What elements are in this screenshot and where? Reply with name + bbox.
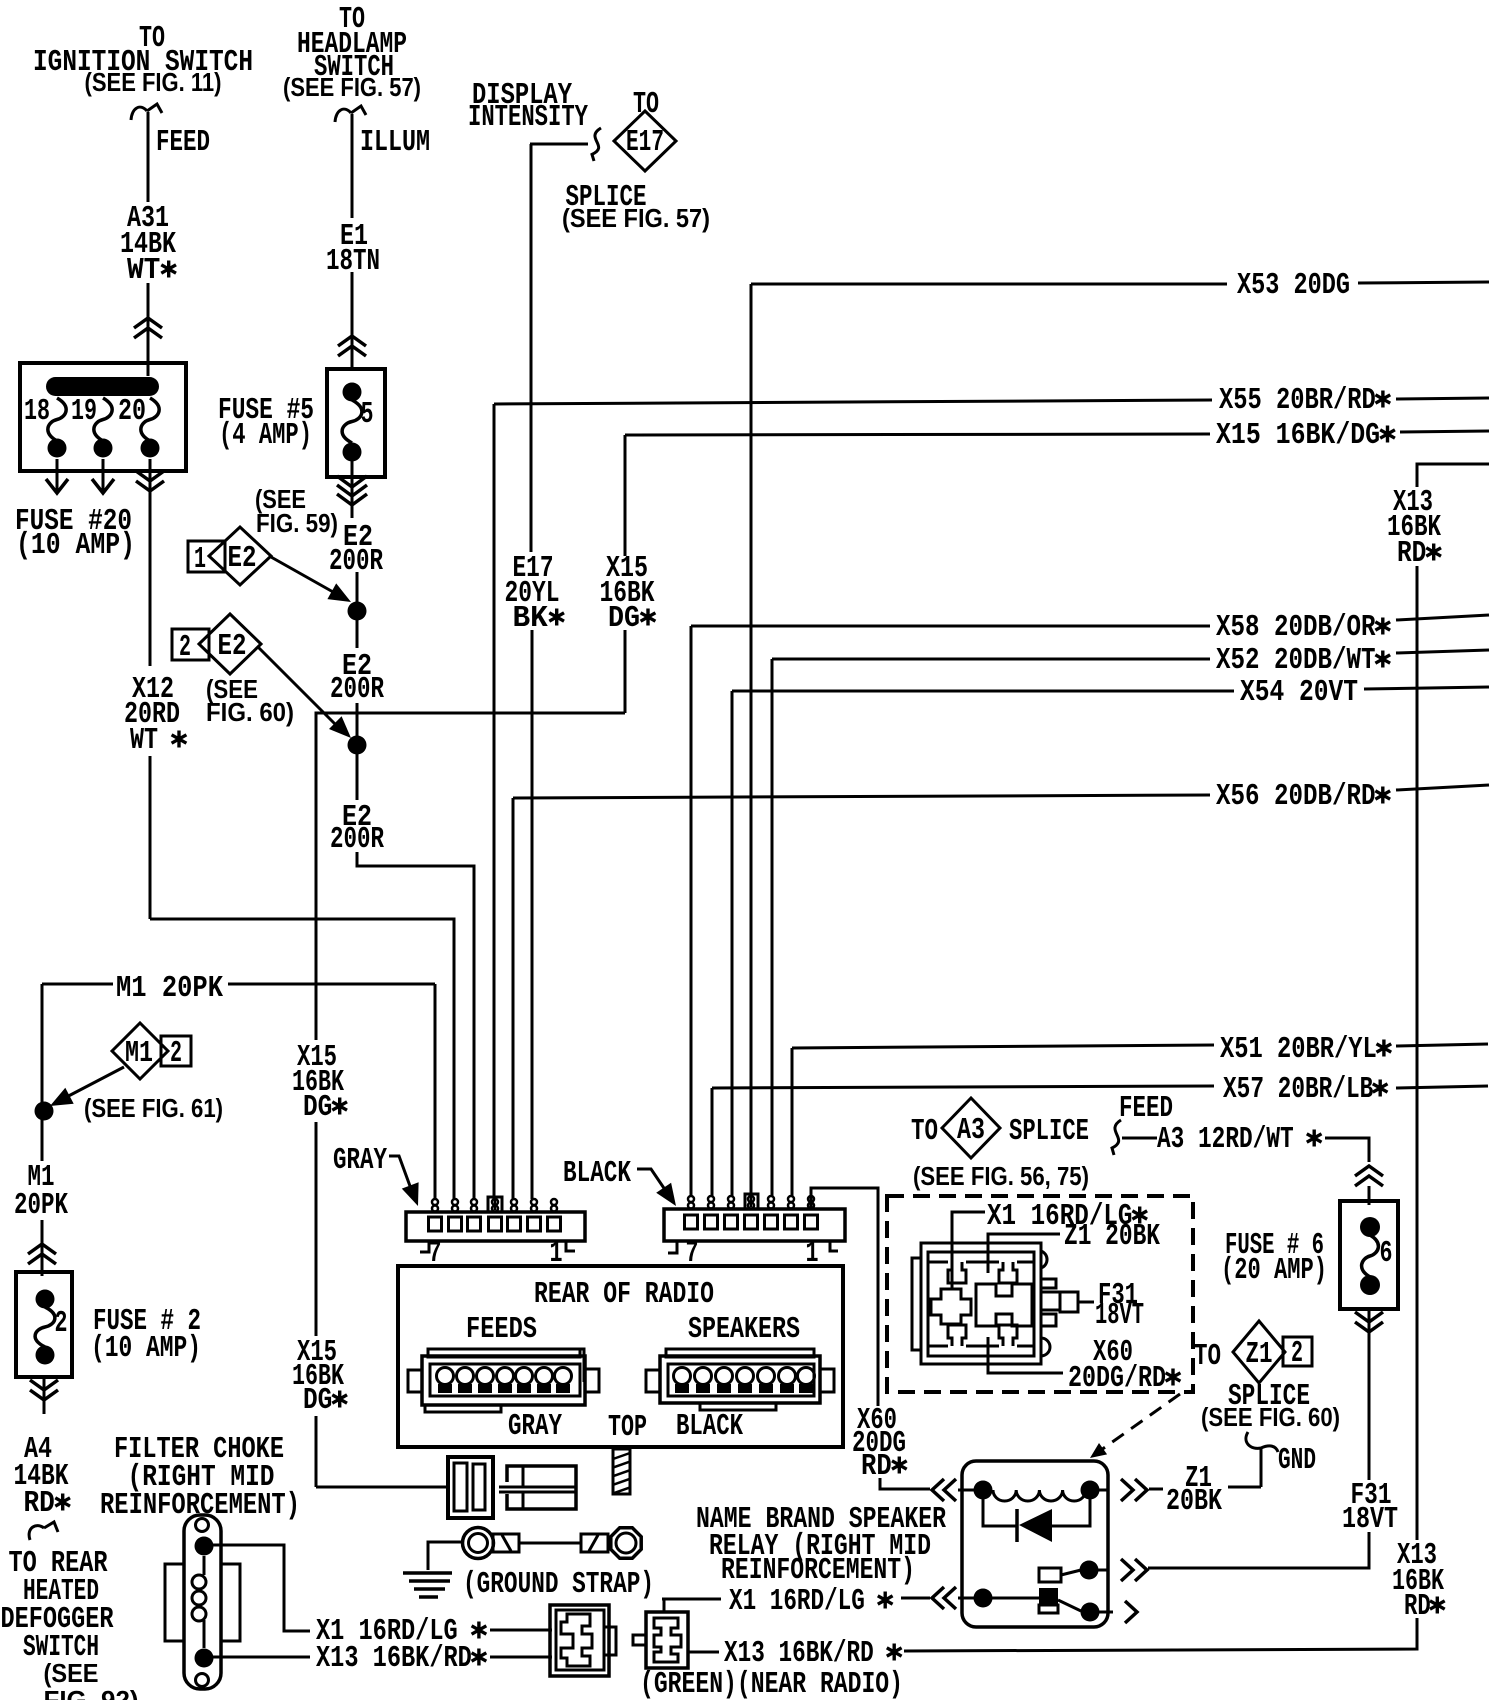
junction dot M1 [35,1102,54,1121]
wire X12 vertical [149,459,152,666]
svg-text:X53 20DG: X53 20DG [1237,269,1350,303]
svg-text:REINFORCEMENT): REINFORCEMENT) [721,1554,915,1588]
fuse 20 element [141,398,159,441]
svg-text:(GREEN)(NEAR RADIO): (GREEN)(NEAR RADIO) [640,1668,903,1700]
wire black pin1 to X60 [811,1188,878,1406]
off-page connector to headlamp switch [335,106,366,122]
splice diamond M1 [112,1023,168,1079]
svg-text:2: 2 [55,1307,68,1341]
splice diamond Z1 [1233,1321,1285,1383]
svg-text:X1 16RD/LG: X1 16RD/LG [729,1585,892,1619]
wire X1 from choke [213,1545,310,1631]
wire F31 vertical [1368,1344,1371,1480]
wire relay lower out [1098,1611,1113,1614]
svg-text:20PK: 20PK [14,1189,69,1223]
wire X12 to gray pin 6 [150,919,454,1199]
inline connector chevron X13 out [1125,1601,1137,1623]
svg-text:X57 20BR/LB: X57 20BR/LB [1223,1073,1387,1107]
wire X1 right label [662,1598,721,1601]
svg-text:20DG/RD: 20DG/RD [1068,1362,1180,1396]
svg-text:200R: 200R [330,673,385,707]
inline connector chevrons M1 [28,1244,56,1264]
svg-text:SPEAKERS: SPEAKERS [688,1313,800,1347]
svg-text:A3 12RD/WT: A3 12RD/WT [1157,1123,1321,1157]
wire E17 vertical [530,144,533,552]
svg-text:19: 19 [71,395,97,429]
svg-text:2: 2 [179,631,191,665]
wire X54 20VT [732,690,1234,693]
svg-text:ILLUM: ILLUM [360,126,430,160]
svg-text:6: 6 [1380,1237,1393,1271]
svg-text:(SEE FIG. 11): (SEE FIG. 11) [85,67,222,97]
inline connector chevrons A31 [134,318,162,338]
inline connector chevrons F31 [1355,1312,1383,1332]
off-page connector to defogger [29,1522,58,1540]
svg-text:GRAY: GRAY [333,1144,388,1178]
inline connector chevrons F31 out [1121,1559,1147,1581]
fuse 2 element [35,1307,55,1347]
svg-text:Z1: Z1 [1246,1338,1273,1372]
svg-text:BLACK: BLACK [676,1410,744,1444]
splice feed squiggle E17 [592,128,601,161]
inline connector chevrons Z1 out [1121,1479,1147,1501]
svg-text:REAR OF RADIO: REAR OF RADIO [534,1278,714,1312]
svg-text:SPLICE: SPLICE [1009,1115,1089,1149]
svg-text:INTENSITY: INTENSITY [468,101,589,135]
wire X58 20DB/OR* [691,625,1210,628]
wire X15 16BK/DG* [625,434,1210,435]
wire E17 horizontal [530,143,588,146]
fuse 20 terminal [141,439,160,458]
wire E2 to gray pin 5 [357,852,474,1199]
svg-text:(20 AMP): (20 AMP) [1221,1254,1327,1288]
splice ref box M1-2 [161,1036,191,1066]
connector GREEN near radio [646,1612,688,1668]
splice ref box 2 [172,629,209,660]
fuse 2 box [16,1272,72,1377]
wire Z1 from relay [1149,1488,1163,1491]
wire X57 20BR/LB* [712,1086,1214,1088]
svg-text:20BK: 20BK [1166,1485,1223,1519]
inline connector chevrons X1 relay [932,1587,956,1609]
relay armature contact [1039,1588,1058,1605]
wire E2 segment 2 [356,703,359,800]
leader F31 [1078,1301,1094,1304]
inline connector chevrons A3 fuse6 [1355,1166,1383,1186]
wire A31 feed vertical [147,112,150,202]
inline connector chevrons E2 [337,476,367,505]
wire F31 to relay [1148,1532,1369,1568]
splice ref box Z1-2 [1283,1337,1312,1366]
svg-text:X58 20DB/OR: X58 20DB/OR [1216,611,1390,645]
leader Z1 20BK [988,1234,1060,1273]
junction dot E2-1 [348,602,367,621]
filter choke component [184,1515,221,1689]
fuse 6 top terminal [1360,1217,1380,1237]
fuse 5 element [342,400,362,443]
wire X51 20BR/YL* [792,1045,1214,1048]
svg-text:E17: E17 [626,126,664,160]
wire X13 from choke [213,1656,310,1659]
dashed arrow to relay [1094,1394,1180,1455]
svg-text:(SEE FIG. 60): (SEE FIG. 60) [1201,1402,1340,1432]
svg-text:18VT: 18VT [1095,1299,1144,1333]
relay coil terminal left [974,1481,993,1500]
fuse 18 element [48,398,66,441]
wire GND to Z1 label [1260,1448,1263,1487]
fuse 5 bottom terminal [343,443,362,462]
svg-text:(SEE: (SEE [44,1658,99,1688]
svg-text:5: 5 [361,398,374,432]
svg-text:X52 20DB/WT: X52 20DB/WT [1216,644,1390,678]
connector GRAY body [406,1212,585,1241]
fuse 19 output arrow [102,459,105,492]
splice ref box 1 [188,541,225,572]
connector SPEAKERS drawing [660,1356,820,1403]
fuse 6 box [1340,1201,1398,1309]
inline connector chevrons X12 [136,471,164,491]
svg-text:X13 16BK/RD: X13 16BK/RD [724,1637,901,1671]
wire M1 vertical [41,984,44,1161]
wire E2 segment 1 [356,572,359,648]
svg-text:X51 20BR/YL: X51 20BR/YL [1220,1033,1391,1067]
svg-text:X15 16BK/DG: X15 16BK/DG [1216,419,1395,453]
wire X60 into relay [880,1478,930,1489]
svg-text:(4 AMP): (4 AMP) [219,419,312,453]
svg-text:(SEE FIG. 61): (SEE FIG. 61) [84,1093,223,1123]
dashed box relay connector [887,1196,1193,1392]
svg-text:18TN: 18TN [326,245,380,279]
wire M1 horizontal [42,983,113,986]
svg-text:X13 16BK/RD: X13 16BK/RD [316,1642,486,1676]
fuse 6 bottom terminal [1360,1275,1380,1295]
relay armature terminal [1081,1603,1100,1622]
splice diamond E2-2 [199,614,261,674]
arrow from E2-2 to junction [258,647,342,731]
relay box [962,1461,1108,1627]
svg-text:X54 20VT: X54 20VT [1240,676,1358,710]
fuse 5 top terminal [343,383,362,402]
svg-text:(10 AMP): (10 AMP) [91,1332,201,1366]
relay NO terminal [1080,1561,1099,1580]
svg-text:E2: E2 [228,542,257,576]
svg-text:X55 20BR/RD: X55 20BR/RD [1219,384,1390,418]
ground strap rings [463,1528,494,1559]
svg-text:TOP: TOP [608,1411,647,1445]
svg-text:FEED: FEED [1119,1092,1173,1126]
svg-text:2: 2 [170,1037,182,1071]
splice diamond E17 [614,111,676,171]
relay coil terminal right [1081,1481,1100,1500]
svg-text:GND: GND [1278,1444,1316,1478]
svg-text:M1 20PK: M1 20PK [116,972,224,1006]
fuse block box [20,363,186,471]
svg-text:1: 1 [194,543,206,577]
svg-text:2: 2 [1291,1337,1303,1371]
wire A4 below fuse 2 [43,1377,46,1414]
svg-text:FIG. 92): FIG. 92) [44,1685,139,1700]
wire X13 into connector [490,1656,552,1659]
off-page connector to ignition switch [131,104,162,120]
wire E1 vertical [351,114,354,218]
wire X56 20DB/RD* [513,795,1210,798]
wire E2 below fuse 5 [351,461,354,518]
svg-text:(GROUND STRAP): (GROUND STRAP) [463,1568,654,1602]
fuse 2 bottom terminal [36,1346,55,1365]
svg-text:(SEE FIG. 57): (SEE FIG. 57) [283,72,421,102]
fuse block bus bar [46,377,159,396]
wire X13 16BK RD* right [1417,464,1489,487]
splice diamond E2-1 [209,527,271,585]
leader X1 16RD/LG [952,1212,985,1290]
off-page connector GND [1246,1432,1278,1452]
svg-text:Z1 20BK: Z1 20BK [1064,1220,1161,1254]
ground lead [428,1542,462,1570]
relay coil wire [958,1489,983,1492]
wire X55 20BR/RD* [494,400,1212,404]
wire X13 right label [689,1651,719,1654]
svg-text:GRAY: GRAY [508,1410,563,1444]
ground symbol [403,1571,452,1575]
svg-text:X56 20DB/RD: X56 20DB/RD [1216,780,1390,814]
svg-text:(SEE FIG. 56, 75): (SEE FIG. 56, 75) [913,1161,1089,1191]
mounting stud [613,1449,630,1494]
fuse 19 terminal [94,439,113,458]
svg-text:18: 18 [24,395,50,429]
connector near ground strap [550,1605,609,1676]
splice feed squiggle A3 [1112,1120,1121,1155]
svg-text:FIG. 59): FIG. 59) [256,508,338,538]
relay NO contact [1039,1568,1061,1582]
wire X52 20DB/WT* [772,658,1210,661]
radio box [398,1266,843,1447]
junction dot E2-2 [348,736,367,755]
splice diamond A3 [942,1098,1000,1158]
relay X1 input wire [958,1597,983,1600]
svg-text:(10 AMP): (10 AMP) [16,529,135,563]
inline connector chevrons A4 [30,1380,58,1400]
wire F31 below fuse6 [1368,1309,1371,1344]
svg-text:E2: E2 [218,630,247,664]
svg-text:FEED: FEED [156,126,210,160]
svg-text:FIG. 60): FIG. 60) [206,697,294,727]
fuse 18 terminal [48,439,67,458]
inline connector chevrons E1 [338,336,366,356]
fuse 18 output arrow [56,459,59,492]
leader X60 20DG/RD [988,1337,1063,1373]
wire X1 into connector [490,1629,552,1632]
svg-text:BLACK: BLACK [563,1157,632,1191]
wire into fuse 6 [1368,1186,1371,1205]
arrow from E2-1 to junction [271,557,342,597]
svg-text:M1: M1 [125,1037,153,1071]
svg-text:FEEDS: FEEDS [466,1313,537,1347]
relay diode loop [983,1498,1017,1526]
connector BLACK body [664,1209,845,1241]
relay X1 terminal [974,1589,993,1608]
svg-text:(SEE FIG. 57): (SEE FIG. 57) [562,203,710,233]
wire A3 12RD/WT [1122,1137,1157,1140]
fuse 5 box [327,369,385,477]
relay connector cavity drawing [921,1243,1041,1364]
wire X53 20DG [751,283,1227,286]
fuse 2 top terminal [36,1290,55,1309]
inline connector at choke [448,1457,493,1518]
connector FEEDS drawing [422,1356,585,1405]
svg-text:TO: TO [1194,1340,1221,1374]
fuse 6 element [1362,1235,1379,1277]
relay diode [1015,1509,1019,1542]
svg-text:A3: A3 [957,1114,985,1148]
fuse 19 element [94,398,112,441]
arrow from M1 to junction [57,1067,124,1102]
svg-text:TO: TO [911,1115,938,1149]
inline connector chevrons X60 [932,1479,956,1501]
